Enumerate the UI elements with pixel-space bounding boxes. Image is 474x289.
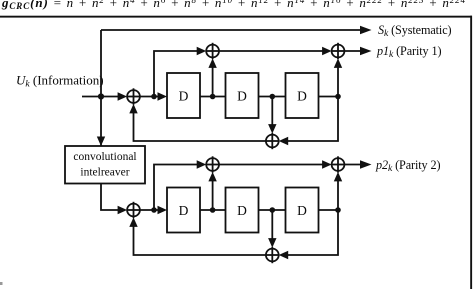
svg-text:D: D bbox=[237, 89, 247, 104]
register D6 bbox=[286, 188, 319, 233]
xor X5 lower input adder bbox=[127, 204, 140, 217]
svg-text:p1k (Parity 1): p1k (Parity 1) bbox=[376, 44, 441, 60]
register D1 bbox=[167, 73, 200, 118]
wire X1 to D1 bbox=[140, 96, 159, 98]
svg-text:Sk (Systematic): Sk (Systematic) bbox=[378, 23, 452, 39]
xor X1 upper input adder bbox=[127, 90, 140, 103]
wire X7 to p2 output bbox=[344, 164, 362, 166]
wire D5 to D6 bbox=[259, 209, 286, 211]
register D2 bbox=[226, 73, 259, 118]
xor X3 parity1 output adder bbox=[332, 45, 345, 58]
wire node J up to X7 bbox=[337, 179, 339, 210]
register D3 bbox=[286, 73, 319, 118]
node A input tap bbox=[98, 93, 104, 99]
equation g_CRC cropped at top bbox=[1, 0, 465, 11]
xor X2 parity1 adder bbox=[206, 45, 219, 58]
wire node F up to X3 bbox=[337, 65, 339, 96]
label Sk (Systematic) bbox=[378, 23, 452, 39]
node H after D4 bbox=[210, 207, 216, 213]
top rule bbox=[0, 16, 472, 18]
right border bbox=[470, 16, 472, 289]
svg-text:D: D bbox=[297, 203, 307, 218]
wire node E down to X4 bbox=[271, 97, 273, 127]
svg-text:intelreaver: intelreaver bbox=[80, 167, 129, 179]
node C after D1 bbox=[210, 94, 216, 100]
interleaver box bbox=[65, 146, 145, 184]
wire systematic horizontal bbox=[101, 29, 362, 31]
wire systematic vertical bbox=[100, 30, 102, 146]
svg-text:D: D bbox=[297, 89, 307, 104]
svg-text:D: D bbox=[237, 203, 247, 218]
node B before D1 bbox=[151, 94, 157, 100]
wire node I down to X8 bbox=[271, 210, 273, 241]
node G before D4 bbox=[151, 207, 157, 213]
xor X6 parity2 adder bbox=[206, 158, 219, 171]
label Uk (Information) bbox=[16, 73, 104, 90]
svg-text:gCRC(n) = n + n2 + n4 + n6 + n: gCRC(n) = n + n2 + n4 + n6 + n8 + n10 + … bbox=[1, 0, 465, 11]
label p2k (Parity 2) bbox=[375, 158, 440, 174]
node E after D2 bbox=[270, 94, 276, 100]
wire X8 feedback to X5 bbox=[134, 224, 266, 255]
wire node F down-left to X4 bbox=[287, 97, 338, 142]
wire X2 to X3 bbox=[219, 50, 324, 52]
wire X5 to D4 bbox=[140, 209, 159, 211]
label p1k (Parity 1) bbox=[376, 44, 441, 60]
xor X7 parity2 output adder bbox=[332, 158, 345, 171]
node J after D6 bbox=[335, 207, 341, 213]
wire D4 to D5 bbox=[200, 209, 226, 211]
svg-text:D: D bbox=[179, 89, 189, 104]
wire D6 to node J bbox=[319, 209, 339, 211]
register D5 bbox=[226, 188, 259, 233]
wire D2 to D3 bbox=[259, 96, 286, 98]
xor X4 upper feedback adder bbox=[266, 135, 279, 148]
wire D3 to node F bbox=[319, 96, 339, 98]
xor X8 lower feedback adder bbox=[266, 249, 279, 262]
register D4 bbox=[167, 188, 200, 233]
wire D1 to D2 bbox=[200, 96, 226, 98]
wire node C up to X2 bbox=[212, 65, 214, 96]
arrow into interleaver bbox=[97, 137, 105, 147]
bottom-left speck bbox=[0, 282, 3, 285]
wire X6 to X7 bbox=[219, 164, 324, 166]
wire interleaver to X5 bbox=[101, 184, 119, 211]
svg-text:Uk (Information): Uk (Information) bbox=[16, 73, 104, 90]
wire tap G up to X6 bbox=[154, 165, 198, 211]
wire X4 feedback to X1 bbox=[134, 111, 266, 141]
svg-text:convolutional: convolutional bbox=[73, 151, 136, 163]
node I after D5 bbox=[270, 207, 276, 213]
wire node H up to X6 bbox=[212, 179, 214, 210]
wire X3 to p1 output bbox=[344, 50, 362, 52]
node F after D3 bbox=[335, 94, 341, 100]
wire tap B up to X2 bbox=[154, 51, 198, 97]
svg-text:p2k (Parity 2): p2k (Parity 2) bbox=[375, 158, 440, 174]
wire node J down-left to X8 bbox=[287, 210, 338, 255]
svg-text:D: D bbox=[179, 203, 189, 218]
wire input to X1 bbox=[82, 96, 119, 98]
